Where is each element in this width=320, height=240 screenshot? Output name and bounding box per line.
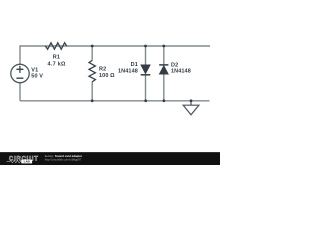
junction top rail / D2	[162, 45, 165, 48]
diode D1	[141, 65, 151, 75]
svg-text:R2: R2	[99, 67, 106, 73]
wire D1 bottom stub	[145, 75, 147, 101]
junction top rail / R2	[91, 45, 94, 48]
svg-text:R1: R1	[53, 55, 60, 61]
junction bottom rail / R2	[91, 99, 94, 102]
wire R2 top stub	[91, 46, 93, 61]
ground	[183, 101, 199, 115]
svg-text:1N4148: 1N4148	[118, 68, 138, 74]
footer watermark bar	[0, 152, 220, 165]
junction bottom rail / D2	[163, 99, 166, 102]
svg-text:100 Ω: 100 Ω	[99, 73, 115, 79]
svg-text:4.7 kΩ: 4.7 kΩ	[48, 61, 66, 67]
wire D2 top stub	[163, 46, 165, 65]
svg-text:50 V: 50 V	[31, 74, 43, 80]
svg-text:D1: D1	[131, 62, 138, 68]
junction top rail / D1	[144, 45, 147, 48]
wire D2 bottom stub	[163, 74, 165, 101]
wire left rail lower	[19, 83, 21, 101]
wire D1 top stub	[145, 46, 147, 65]
resistor R1	[45, 43, 66, 49]
svg-text:1N4148: 1N4148	[171, 69, 191, 75]
wire top rail	[20, 45, 210, 47]
svg-text:LAB: LAB	[24, 160, 31, 164]
junction bottom rail / ground	[190, 99, 193, 102]
wire bottom rail	[20, 100, 210, 102]
voltage source V1	[11, 64, 29, 82]
resistor R2	[89, 60, 95, 81]
wire left rail upper	[19, 45, 21, 64]
svg-text:http://circuitlab.com/c/b8gp87: http://circuitlab.com/c/b8gp87	[45, 157, 82, 161]
svg-text:D2: D2	[171, 62, 178, 68]
wire R2 bottom stub	[91, 82, 93, 101]
junction bottom rail / D1	[144, 99, 147, 102]
svg-text:V1: V1	[31, 67, 38, 73]
diode D2	[159, 65, 168, 74]
